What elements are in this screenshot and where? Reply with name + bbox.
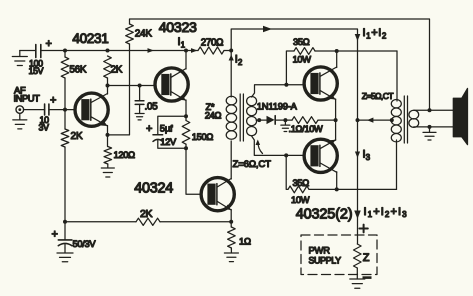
wire: T1 center tap [256, 119, 266, 121]
wire: Q1 collector to Q2 base coupling [108, 85, 154, 87]
resistor 56K [61, 57, 69, 78]
capacitor .05 [139, 86, 141, 101]
svg-text:40231: 40231 [72, 31, 108, 46]
wire: Q3 emitter [217, 201, 231, 210]
wire: cap to Q1 base [49, 109, 75, 111]
svg-text:+: + [52, 229, 58, 241]
svg-text:+: + [50, 95, 56, 107]
diode 1N1199-A [267, 116, 275, 124]
svg-text:56K: 56K [69, 64, 87, 75]
wire: secondary to speaker [414, 109, 454, 111]
wire: Q2 emitter [171, 92, 186, 101]
node: I1+I2 current arrow [355, 34, 361, 41]
wire: Q2 collector [171, 69, 186, 78]
label I2 with up arrow [229, 55, 234, 61]
svg-text:+: + [146, 123, 152, 135]
ground: jack ground [19, 113, 21, 119]
resistor 2K feedback [65, 221, 136, 223]
T1 primary winding [230, 51, 232, 98]
resistor 35 ohm/10W upper (base-collector) [286, 51, 294, 85]
svg-text:40324: 40324 [134, 180, 173, 196]
resistor 2K base-bottom [61, 129, 69, 147]
svg-text:10W: 10W [293, 54, 312, 64]
svg-text:270Ω: 270Ω [201, 37, 223, 48]
capacitor C 100uF/15V [35, 45, 37, 58]
ground: left rail ground [19, 51, 21, 57]
wire: Q1 collector [91, 94, 107, 103]
svg-text:1Ω: 1Ω [239, 236, 251, 247]
svg-text:150Ω: 150Ω [192, 132, 214, 142]
transistor Q5 lower 40325 [304, 139, 337, 172]
capacitor 10uF/3V [44, 104, 46, 115]
wire: T1 secondary bottom to lower output base [252, 136, 304, 155]
label I1+I2+I3 [354, 211, 361, 220]
svg-text:3V: 3V [39, 123, 50, 133]
svg-text:INPUT: INPUT [14, 93, 41, 104]
svg-text:SUPPLY: SUPPLY [309, 256, 342, 266]
svg-text:1N1199-A: 1N1199-A [257, 100, 298, 111]
capacitor 5uF/12V bypass loop [158, 116, 186, 135]
wire: Q2 emitter chain down to Q3 base [186, 148, 201, 194]
svg-text:35Ω: 35Ω [293, 37, 310, 47]
svg-text:40325(2): 40325(2) [296, 206, 353, 222]
T1 secondary winding [247, 97, 257, 106]
svg-text:12V: 12V [160, 137, 177, 147]
capacitor 50uF/3V [64, 222, 66, 240]
resistor 270 ohm [198, 47, 224, 54]
svg-text:PWR: PWR [309, 244, 331, 255]
wire: main horizontal supply rail (y=50.5) [20, 50, 36, 52]
ground: 1 ohm ground [230, 250, 232, 253]
resistor 24K [126, 24, 134, 44]
resistor .1 ohm/10W emitter resistor [285, 119, 292, 121]
svg-text:24Ω: 24Ω [205, 110, 222, 120]
wire: Q5 collector (down) [320, 163, 337, 172]
ground: .05 cap ground [139, 109, 141, 114]
svg-text:120Ω: 120Ω [114, 150, 136, 160]
speaker [453, 88, 467, 144]
wire: Q1 emitter [91, 117, 107, 126]
wire: output transformer CT to supply rail [358, 119, 392, 121]
svg-text:Z=6Ω,CT: Z=6Ω,CT [233, 159, 272, 170]
T2 primary winding [396, 51, 398, 101]
ground: power supply ground [356, 274, 358, 279]
resistor 35 ohm/10W lower (base-collector) [286, 155, 288, 189]
resistor Z internal impedance [354, 244, 362, 268]
wire: Q5 emitter (up) [320, 140, 335, 149]
transistor Q1 40231 [75, 93, 108, 126]
wire: supply branch rail I1+I2 (y=29) [231, 29, 357, 244]
resistor 150 ohm [182, 121, 190, 145]
svg-text:+: + [46, 38, 52, 50]
svg-text:.05: .05 [145, 102, 159, 113]
T2 core [403, 96, 405, 143]
T2 secondary winding [409, 110, 419, 119]
wire: Q4 collector [320, 67, 337, 76]
svg-text:.1Ω/10W: .1Ω/10W [289, 124, 324, 134]
svg-text:15V: 15V [29, 66, 44, 76]
svg-text:5µf: 5µf [160, 124, 173, 135]
svg-text:35Ω: 35Ω [293, 178, 310, 188]
resistor 120 ohm [104, 147, 112, 165]
transistor Q2 40323 [155, 68, 188, 101]
svg-text:Z=5Ω,CT: Z=5Ω,CT [362, 91, 394, 101]
AF input jack [16, 106, 24, 114]
resistor 2K collector load [104, 56, 112, 78]
svg-text:50/3V: 50/3V [73, 239, 97, 249]
wire: top feedback rail from speaker to 24K [130, 19, 430, 110]
svg-text:Z: Z [363, 252, 370, 264]
wire: input to coupling cap [24, 109, 45, 111]
label minus terminal [363, 276, 372, 279]
power supply dashed box [301, 235, 377, 275]
svg-text:24K: 24K [135, 28, 153, 39]
svg-text:40323: 40323 [159, 20, 197, 36]
wire: Q3 collector to driver transformer primary [217, 179, 231, 188]
ground: speaker return ground [429, 127, 431, 132]
wire: 24K bootstrap down to 40231 emitter [108, 44, 130, 135]
resistor 1 ohm [229, 220, 233, 224]
wire: Q4 emitter [320, 91, 335, 100]
svg-text:2K: 2K [140, 208, 153, 220]
svg-text:2K: 2K [111, 64, 123, 75]
ground: 120 ohm ground [107, 164, 109, 168]
ground: 50uF ground [64, 248, 66, 253]
node: diode-resistor junction with ground [283, 118, 287, 122]
node: junction dots on main rail [63, 49, 67, 53]
label I3 current arrow on rail [355, 152, 360, 159]
transistor Q3 40324 [201, 178, 234, 211]
wire: T1 secondary top to upper output base [252, 85, 304, 97]
node: Q1 base junction [63, 108, 67, 112]
transistor Q4 upper 40325 [304, 67, 337, 100]
svg-text:10W: 10W [291, 195, 310, 205]
T1 core [239, 94, 241, 141]
svg-text:2K: 2K [71, 131, 84, 142]
